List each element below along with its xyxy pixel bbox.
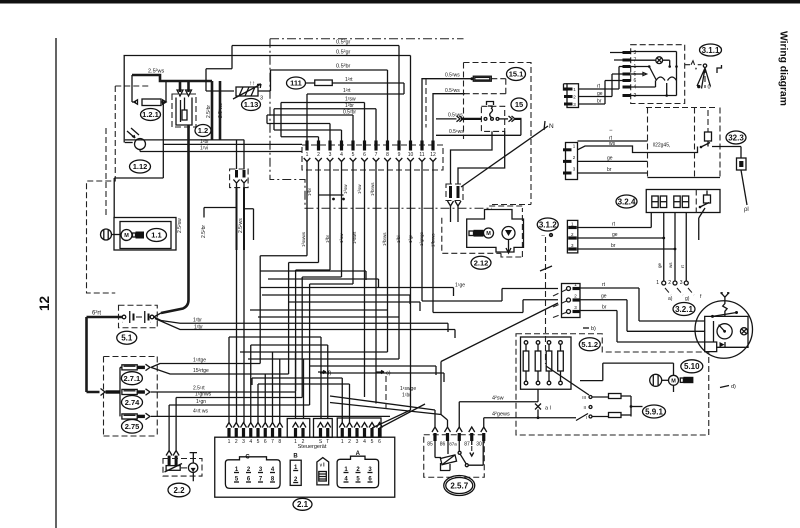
svg-text:1.2.1: 1.2.1: [142, 110, 159, 119]
svg-text:1²swrt: 1²swrt: [352, 231, 357, 244]
svg-text:85: 85: [427, 442, 433, 448]
svg-text:2.5.7: 2.5.7: [450, 482, 468, 491]
svg-text:1.12: 1.12: [133, 162, 148, 171]
svg-text:5.10: 5.10: [684, 362, 700, 371]
svg-text:.: .: [150, 319, 151, 325]
svg-text:12: 12: [37, 296, 52, 311]
svg-text:4²gews: 4²gews: [492, 412, 510, 418]
svg-text:0: 0: [708, 85, 711, 91]
svg-text:1.1: 1.1: [151, 231, 161, 240]
svg-text:8: 8: [386, 152, 389, 158]
svg-text:87: 87: [464, 442, 470, 448]
svg-text:=: =: [125, 238, 128, 243]
svg-text:15: 15: [515, 100, 523, 109]
svg-text:c): c): [386, 371, 391, 377]
svg-text:M: M: [486, 231, 491, 237]
svg-text:1²gr: 1²gr: [408, 234, 413, 243]
svg-text:3.2.4: 3.2.4: [618, 197, 636, 206]
svg-text:ge: ge: [597, 91, 603, 97]
svg-text:ws: ws: [668, 262, 673, 268]
svg-text:M: M: [671, 378, 676, 384]
svg-text:0.5²gr: 0.5²gr: [336, 40, 351, 46]
svg-text:32.3: 32.3: [728, 133, 744, 142]
svg-text:2: 2: [348, 439, 351, 445]
svg-text:1²bl: 1²bl: [396, 235, 401, 243]
svg-text:3: 3: [260, 96, 263, 102]
svg-text:8: 8: [278, 439, 281, 445]
svg-text:2.74: 2.74: [125, 398, 140, 407]
svg-text:0.5²ws: 0.5²ws: [445, 88, 460, 94]
svg-text:f): f): [328, 371, 332, 377]
svg-text:3: 3: [356, 439, 359, 445]
svg-text:1²swws: 1²swws: [301, 231, 306, 247]
svg-text:a l: a l: [545, 406, 551, 412]
svg-text:5.1.2: 5.1.2: [581, 340, 598, 349]
svg-text:87a: 87a: [449, 442, 457, 447]
svg-text:1²br: 1²br: [345, 103, 354, 109]
svg-text:1.13: 1.13: [244, 100, 259, 109]
svg-text:2: 2: [317, 152, 320, 158]
svg-text:.: .: [122, 319, 123, 325]
svg-text:T: T: [326, 439, 329, 445]
svg-text:Wiring diagram: Wiring diagram: [778, 31, 789, 106]
svg-text:1²sw: 1²sw: [357, 184, 362, 194]
svg-text:II: II: [583, 405, 586, 410]
svg-text:2.75: 2.75: [125, 422, 140, 431]
svg-text:br: br: [597, 99, 602, 105]
svg-text:b): b): [591, 326, 596, 332]
svg-text:B: B: [293, 454, 298, 460]
svg-text:5.9.1: 5.9.1: [645, 407, 663, 416]
svg-text:C: C: [245, 455, 250, 461]
svg-text:Steuergerät: Steuergerät: [298, 444, 327, 450]
svg-text:4¹rt ws: 4¹rt ws: [193, 409, 209, 415]
svg-text:1¹gnws: 1¹gnws: [195, 392, 212, 398]
svg-text:1¹ge: 1¹ge: [455, 283, 465, 289]
svg-text:12: 12: [430, 152, 436, 158]
svg-text:1²br: 1²br: [307, 187, 312, 196]
svg-text:2: 2: [668, 280, 671, 286]
svg-text:3: 3: [329, 152, 332, 158]
svg-text:2.2: 2.2: [173, 486, 185, 495]
svg-text:br: br: [602, 305, 607, 311]
svg-text:0.5¹ws: 0.5¹ws: [449, 129, 464, 135]
svg-text:1²vi: 1²vi: [200, 146, 208, 152]
svg-text:‖22g45,: ‖22g45,: [653, 143, 670, 149]
svg-text:1¹swge: 1¹swge: [400, 386, 416, 392]
svg-text:1²br: 1²br: [193, 318, 202, 324]
svg-text:6²rt: 6²rt: [92, 311, 101, 317]
svg-text:3.2.1: 3.2.1: [675, 305, 693, 314]
svg-text:15²rtge: 15²rtge: [193, 368, 209, 374]
svg-text:↑↑: ↑↑: [249, 81, 255, 87]
svg-text:5: 5: [257, 439, 260, 445]
svg-text:2.5²ws: 2.5²ws: [148, 69, 164, 75]
svg-text:1²br: 1²br: [325, 234, 330, 243]
svg-text:1¹br: 1¹br: [402, 393, 411, 399]
svg-text:1²rt: 1²rt: [345, 77, 353, 83]
svg-text:2: 2: [235, 439, 238, 445]
svg-text:15.1: 15.1: [509, 70, 524, 79]
svg-text:0.5²br: 0.5²br: [336, 64, 351, 70]
svg-text:2.5²br: 2.5²br: [206, 105, 212, 118]
svg-text:∨‖: ∨‖: [319, 463, 325, 469]
svg-text:11: 11: [419, 152, 424, 158]
svg-text:30: 30: [476, 442, 482, 448]
svg-text:10: 10: [408, 152, 414, 158]
svg-text:1²sw: 1²sw: [339, 233, 344, 243]
svg-text:3: 3: [680, 280, 683, 286]
svg-text:4²sw: 4²sw: [492, 396, 504, 402]
svg-text:1: 1: [656, 280, 659, 286]
svg-text:I: I: [586, 415, 587, 420]
svg-text:ge: ge: [657, 262, 662, 268]
svg-text:1²br: 1²br: [194, 325, 203, 331]
svg-text:1: 1: [306, 152, 309, 158]
svg-text:0.5²gr: 0.5²gr: [336, 50, 351, 56]
svg-text:1²sw: 1²sw: [343, 184, 348, 194]
svg-text:ge: ge: [607, 156, 613, 162]
svg-text:ge: ge: [612, 232, 618, 238]
svg-text:3: 3: [242, 439, 245, 445]
svg-text:4: 4: [249, 439, 252, 445]
svg-text:ρl: ρl: [744, 207, 749, 213]
svg-text:5.1: 5.1: [121, 334, 133, 343]
svg-text:6: 6: [378, 439, 381, 445]
svg-text:6: 6: [363, 152, 366, 158]
svg-text:br: br: [607, 167, 612, 173]
svg-text:5: 5: [352, 152, 355, 158]
svg-text:2.7.1: 2.7.1: [124, 374, 141, 383]
svg-text:86: 86: [440, 442, 446, 448]
svg-text:ws: ws: [609, 141, 616, 147]
svg-text:III: III: [582, 395, 586, 400]
svg-text:1: 1: [228, 439, 231, 445]
svg-text:N: N: [549, 123, 554, 130]
svg-text:3.1.1: 3.1.1: [702, 46, 720, 55]
svg-text:1²brws: 1²brws: [370, 182, 375, 196]
svg-text:−: −: [609, 128, 613, 134]
svg-text:1²rt: 1²rt: [343, 88, 351, 94]
svg-text:111: 111: [290, 79, 302, 88]
svg-text:0.5¹ws: 0.5¹ws: [448, 113, 463, 119]
svg-text:d): d): [731, 384, 736, 390]
svg-text:1²sw: 1²sw: [345, 97, 356, 103]
svg-text:2.12: 2.12: [474, 258, 489, 267]
svg-text:5: 5: [371, 439, 374, 445]
svg-text:4: 4: [363, 439, 366, 445]
svg-text:g): g): [685, 296, 690, 302]
svg-text:∼: ∼: [541, 233, 545, 239]
svg-text:1: 1: [341, 439, 344, 445]
svg-text:0.5²br: 0.5²br: [343, 110, 356, 116]
svg-text:7: 7: [375, 152, 378, 158]
svg-text:6: 6: [634, 78, 637, 84]
svg-text:1¹gn: 1¹gn: [196, 399, 206, 405]
svg-text:2.1: 2.1: [297, 500, 309, 509]
svg-text:ge: ge: [601, 294, 607, 300]
svg-text:a): a): [668, 296, 673, 302]
svg-text:br: br: [611, 243, 616, 249]
svg-text:1²brws: 1²brws: [431, 233, 436, 247]
svg-text:1²gnge: 1²gnge: [419, 231, 424, 246]
svg-text:9: 9: [398, 152, 401, 158]
svg-text:4: 4: [340, 152, 343, 158]
svg-text:1¹rtge: 1¹rtge: [193, 358, 206, 364]
svg-text:6: 6: [264, 439, 267, 445]
svg-text:1²brws: 1²brws: [382, 232, 387, 246]
svg-text:2.5²br: 2.5²br: [201, 225, 207, 238]
svg-text:3.1.2: 3.1.2: [539, 220, 557, 229]
svg-text:0.5²ws: 0.5²ws: [445, 73, 460, 79]
svg-text:2.5²sw: 2.5²sw: [177, 218, 183, 233]
svg-text:A: A: [356, 451, 361, 457]
svg-text:1.2: 1.2: [198, 126, 208, 135]
svg-text:7: 7: [271, 439, 274, 445]
